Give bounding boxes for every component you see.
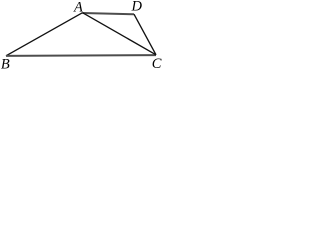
svg-text:C: C	[152, 56, 162, 69]
side DC	[134, 14, 156, 55]
diagonal AC	[83, 13, 157, 55]
svg-text:B: B	[1, 56, 10, 69]
side AB	[6, 13, 83, 56]
side BC	[6, 54, 156, 57]
side AD	[83, 13, 135, 14]
svg-text:D: D	[131, 0, 143, 14]
svg-text:A: A	[73, 0, 83, 16]
